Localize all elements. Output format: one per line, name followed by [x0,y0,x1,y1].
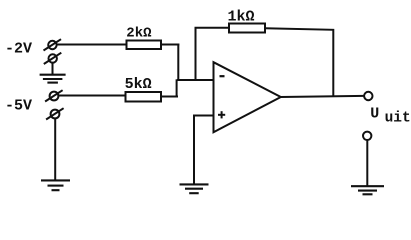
svg-text:-2V: -2V [5,41,32,58]
svg-text:U: U [370,106,379,123]
svg-text:2kΩ: 2kΩ [126,25,152,41]
svg-text:-5V: -5V [5,98,32,115]
svg-text:uit: uit [385,110,411,126]
svg-text:5kΩ: 5kΩ [125,76,152,93]
